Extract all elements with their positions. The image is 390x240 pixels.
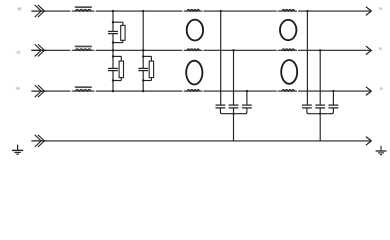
node RC1 bottom junction — [112, 41, 114, 43]
wire v143 row2 to RC3 top — [142, 50, 144, 56]
wire RC2 top stub — [113, 56, 121, 61]
node label row2 output (faint) — [379, 47, 382, 49]
resistor R3 — [149, 61, 153, 78]
wire C3 top lead — [142, 56, 144, 68]
transformer T1 core ring lower — [186, 61, 202, 85]
capacitor C6 — [242, 105, 252, 108]
capacitor C1 — [108, 31, 118, 33]
node junction row1 x221 — [220, 10, 222, 12]
resistor R1 — [121, 25, 125, 40]
node label row1 input (faint) — [18, 7, 22, 10]
wire RC1 bottom stub — [113, 42, 123, 44]
wire line L2 rail (row 2) — [31, 49, 371, 51]
port P5 output arrow row 1 — [366, 7, 371, 16]
transformer T1 core ring upper — [187, 20, 203, 41]
node junction row2 x143 — [142, 49, 144, 51]
node A junction row1 x113 — [112, 10, 114, 12]
node junction row1 x307 — [306, 10, 308, 12]
capacitor C4 — [216, 105, 226, 108]
node group2 bus junction — [319, 113, 321, 115]
capacitor C9 — [329, 105, 339, 108]
inductor L3 core bar — [75, 86, 92, 88]
node B junction row1 x143 — [142, 10, 144, 12]
port P2 input arrow row 2 — [31, 44, 46, 56]
transformer T2 winding row 1 — [282, 9, 295, 11]
wire C6 bottom lead — [234, 108, 247, 114]
wire R1 bottom lead — [122, 40, 124, 42]
wire v320 row2 to C8 — [319, 50, 321, 105]
wire group2 drop to ground rail — [319, 114, 321, 141]
wire C8 bottom lead — [319, 108, 321, 114]
node RC3 bottom junction — [142, 79, 144, 81]
port P8 output arrow row 4 (ground) — [366, 137, 371, 146]
wire C5 bottom lead — [233, 108, 235, 114]
node junction row3 x247 — [246, 90, 248, 92]
wire C2 top lead — [112, 56, 114, 68]
capacitor C8 — [315, 105, 325, 108]
wire line L1 rail (row 1) — [31, 10, 371, 12]
capacitor C2 — [108, 68, 118, 70]
transformer T2 core ring lower — [281, 60, 297, 84]
wire group1 drop to ground rail — [233, 114, 235, 141]
transformer T2 winding row 3 — [282, 90, 295, 92]
transformer T1 winding row 2 — [187, 49, 200, 51]
node junction row2 x113 — [112, 49, 114, 51]
transformer T1 winding row 1 — [187, 9, 200, 11]
wire C2 bottom lead — [112, 71, 114, 92]
ground GND2 (bottom right) — [376, 146, 387, 155]
node junction row2 x233 — [232, 49, 234, 51]
wire C1 top lead — [112, 22, 114, 31]
wire R2 bottom lead — [120, 78, 122, 81]
inductor L1 coil row 1 — [75, 9, 91, 11]
wire v333 row3 to C9 — [332, 91, 334, 105]
wire RC2 bottom stub — [113, 80, 121, 82]
transformer T2 core ring upper — [280, 20, 296, 40]
node RC2 bottom junction — [112, 79, 114, 81]
transformer T2 winding row 2 — [282, 49, 295, 51]
inductor L2 core bar — [75, 46, 92, 48]
node label row2 input (faint) — [17, 51, 20, 54]
node junction row3 x333 — [332, 90, 334, 92]
node group1 bus junction — [232, 113, 234, 115]
node label row1 output (faint) — [379, 7, 382, 9]
capacitor C7 — [302, 105, 312, 108]
node RC1 top junction — [112, 21, 114, 23]
wire v143 row1 to row2 — [142, 11, 144, 50]
port P6 output arrow row 2 — [366, 46, 371, 55]
wire C4 bottom lead — [220, 108, 233, 114]
port P7 output arrow row 3 — [366, 87, 371, 96]
node junction row2 x320 — [319, 49, 321, 51]
capacitor C3 — [138, 68, 148, 70]
resistor R2 — [119, 61, 123, 78]
wire v221 row1 to C4 — [220, 11, 222, 105]
wire v113 row2 to RC2 top — [112, 50, 114, 56]
wire C3 bottom lead — [142, 71, 144, 92]
wire v233 row2 to C5 — [233, 50, 235, 105]
wire R3 bottom lead — [150, 78, 152, 81]
wire v113 row1 to RC1 top — [112, 11, 114, 22]
wire ground rail (row 4) — [31, 140, 371, 142]
node RC3 top junction — [142, 55, 144, 57]
wire line L3 rail (row 3) — [31, 90, 371, 92]
wire C9 bottom lead — [320, 108, 333, 114]
capacitor C5 — [229, 105, 239, 108]
wire RC3 top stub — [143, 56, 151, 61]
node junction row3 x113 — [112, 90, 114, 92]
port P3 input arrow row 3 — [31, 85, 46, 97]
wire v247 row3 to C6 — [246, 91, 248, 105]
node label row3 output (faint) — [380, 87, 383, 89]
ground GND1 (bottom left) — [12, 145, 23, 155]
inductor L1 core bar — [75, 6, 92, 8]
node junction row3 x143 — [142, 90, 144, 92]
node label row3 input (faint) — [16, 87, 19, 90]
inductor L3 coil row 3 — [75, 90, 91, 92]
port P4 input arrow row 4 (ground) — [31, 135, 46, 147]
wire C1 bottom lead — [112, 34, 114, 51]
port P1 input arrow row 1 — [31, 5, 46, 17]
node RC2 top junction — [112, 55, 114, 57]
wire v307 row1 to C7 — [306, 11, 308, 105]
inductor L2 coil row 2 — [75, 49, 91, 51]
wire C7 bottom lead — [307, 108, 320, 114]
wire RC1 top stub — [113, 22, 123, 25]
transformer T1 winding row 3 — [187, 90, 200, 92]
wire RC3 bottom stub — [143, 80, 151, 82]
